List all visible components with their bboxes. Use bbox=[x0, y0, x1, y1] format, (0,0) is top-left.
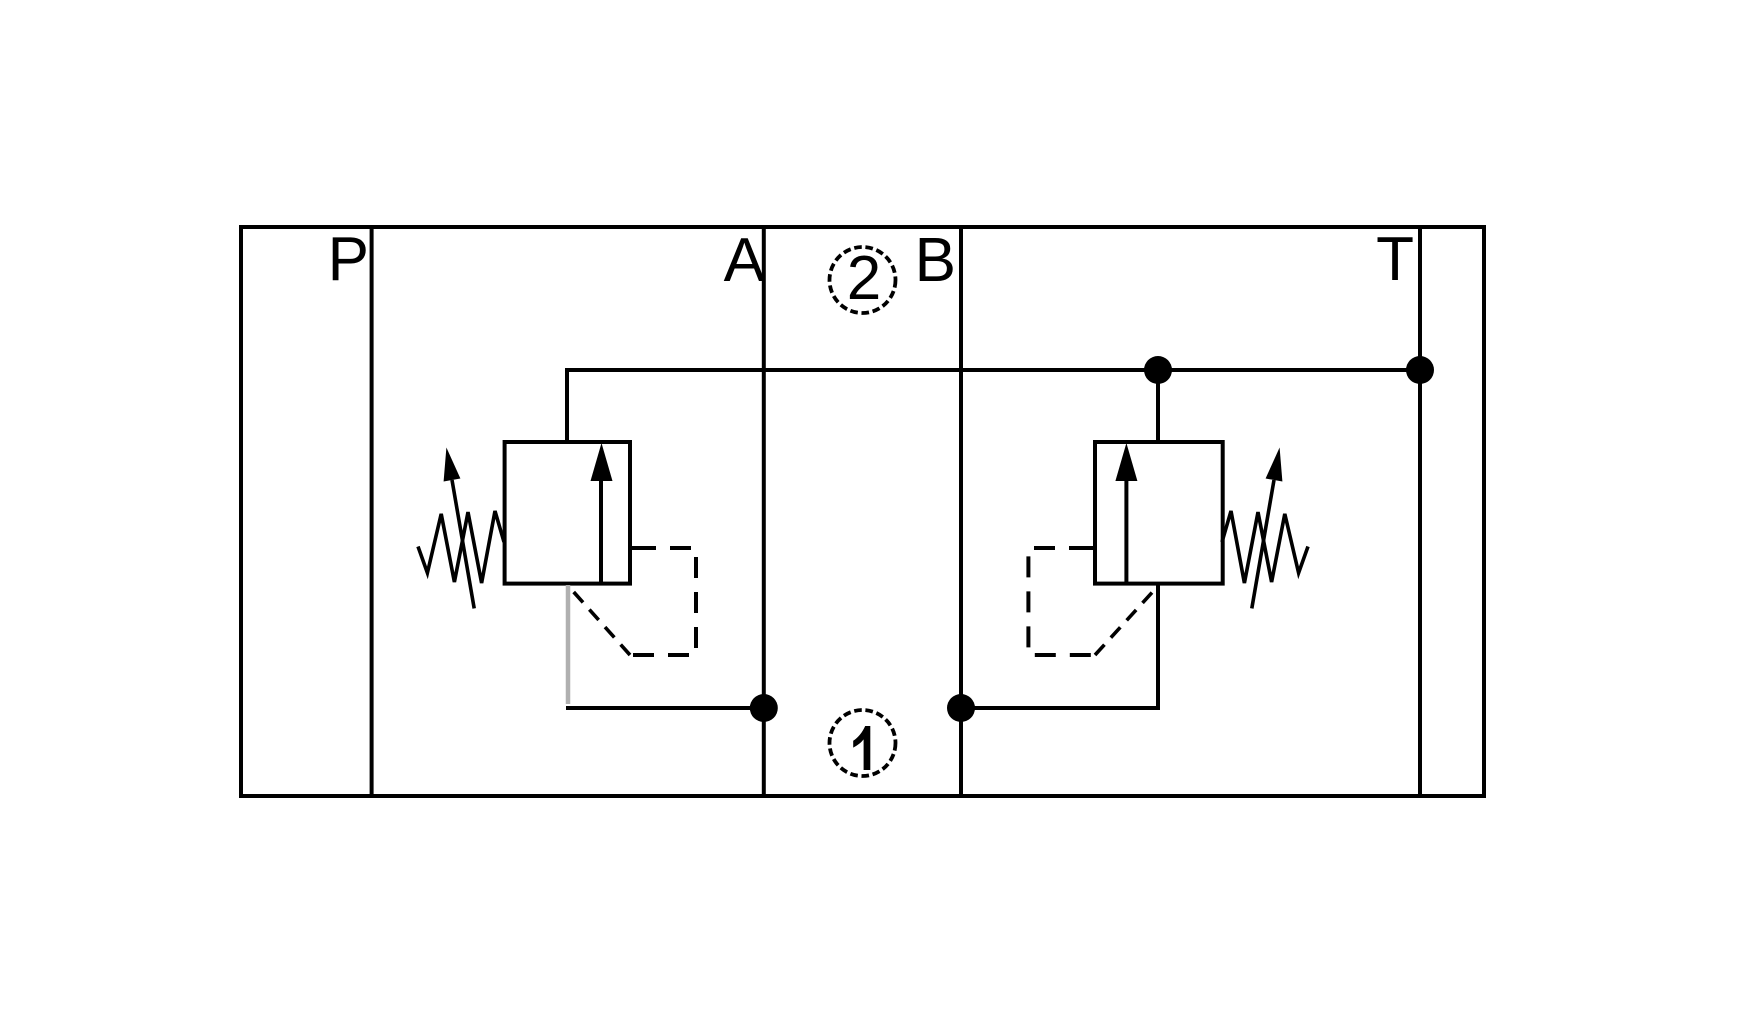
valve V2 body bbox=[1095, 442, 1223, 584]
svg-text:P: P bbox=[328, 225, 369, 294]
svg-text:T: T bbox=[1376, 225, 1414, 294]
svg-text:2: 2 bbox=[847, 244, 881, 313]
valve V1 drain gray bbox=[566, 585, 571, 704]
node label 1 circle bbox=[830, 710, 896, 776]
wire V1 to A bbox=[566, 706, 764, 710]
P port line bbox=[370, 227, 374, 796]
T port line bbox=[1418, 227, 1422, 796]
valve V1 pilot stub bbox=[630, 546, 656, 550]
valve V2 pilot diagonal bbox=[1095, 586, 1158, 655]
wire V2 to B bbox=[961, 584, 1158, 708]
valve V1 adjustment arrow bbox=[452, 480, 474, 608]
wire top manifold bbox=[567, 370, 1420, 444]
valve V1 pilot diagonal bbox=[571, 589, 630, 655]
valve V1 spring bbox=[418, 511, 504, 583]
junction dot A bbox=[750, 694, 778, 722]
valve V2 adjustment arrow bbox=[1252, 480, 1274, 608]
valve V2 pilot stub bbox=[1069, 546, 1095, 550]
junction dot B bbox=[947, 694, 975, 722]
svg-text:A: A bbox=[724, 226, 766, 295]
node label 1 digit bbox=[853, 726, 870, 770]
A port line bbox=[762, 227, 766, 796]
valve V2 spring bbox=[1222, 511, 1308, 583]
node label 2 circle bbox=[830, 247, 896, 313]
valve V1 flow arrow bbox=[599, 476, 603, 584]
valve V1 pilot dashed box bbox=[630, 548, 696, 655]
enclosure outline bbox=[241, 227, 1484, 796]
valve V2 flow arrow bbox=[1124, 476, 1128, 584]
valve V2 pilot dashed box bbox=[1028, 548, 1095, 655]
junction dot T line bbox=[1406, 356, 1434, 384]
wire V2 feed drop bbox=[1156, 370, 1160, 444]
B port line bbox=[959, 227, 963, 796]
junction dot V2 feed bbox=[1144, 356, 1172, 384]
svg-text:B: B bbox=[915, 226, 956, 295]
valve V1 body bbox=[505, 442, 630, 584]
